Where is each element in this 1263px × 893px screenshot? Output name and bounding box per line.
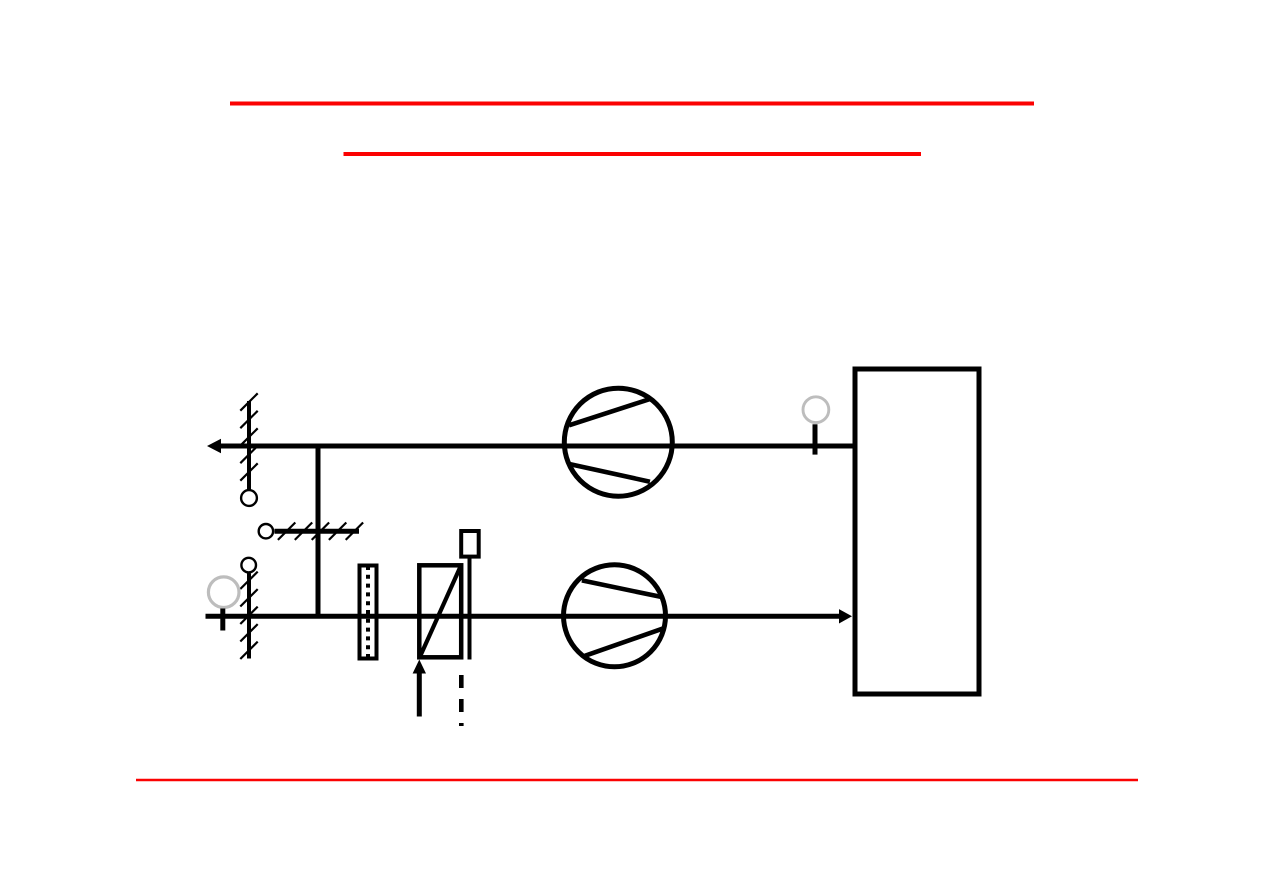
supply fan [564, 565, 666, 667]
outside air damper [240, 572, 257, 659]
extract air temperature sensor (grey) [803, 397, 829, 423]
valve actuator box [461, 531, 479, 557]
title rule lower red [344, 152, 922, 156]
outside air damper actuator circle [241, 558, 256, 573]
recirculation damper [275, 523, 364, 540]
title rule upper red [230, 102, 1034, 106]
supply air arrowhead [839, 609, 852, 623]
outside air sensor stem [220, 609, 225, 631]
outside air temperature sensor (grey) [208, 577, 239, 608]
recirculation damper actuator circle [259, 524, 273, 538]
hot water supply arrowhead [413, 660, 426, 674]
heating coil [419, 565, 461, 657]
hot water supply arrow line [417, 672, 422, 717]
room / conditioned zone [855, 369, 979, 694]
exhaust air arrowhead [207, 439, 221, 453]
supply air duct (bottom wire) [206, 614, 842, 619]
valve stem [468, 556, 472, 660]
exhaust fan [564, 388, 672, 496]
air filter [360, 566, 377, 659]
exhaust damper actuator circle [241, 490, 257, 506]
recirculation duct (vertical wire) [316, 446, 321, 616]
extract air sensor stem [813, 424, 818, 454]
hot water return dashed line [459, 675, 464, 726]
heating coil diagonal [421, 567, 461, 656]
exhaust air damper [240, 393, 257, 489]
exhaust air duct (top wire) [213, 444, 854, 449]
footer rule red [136, 779, 1138, 781]
filter media dotted line [366, 566, 370, 658]
